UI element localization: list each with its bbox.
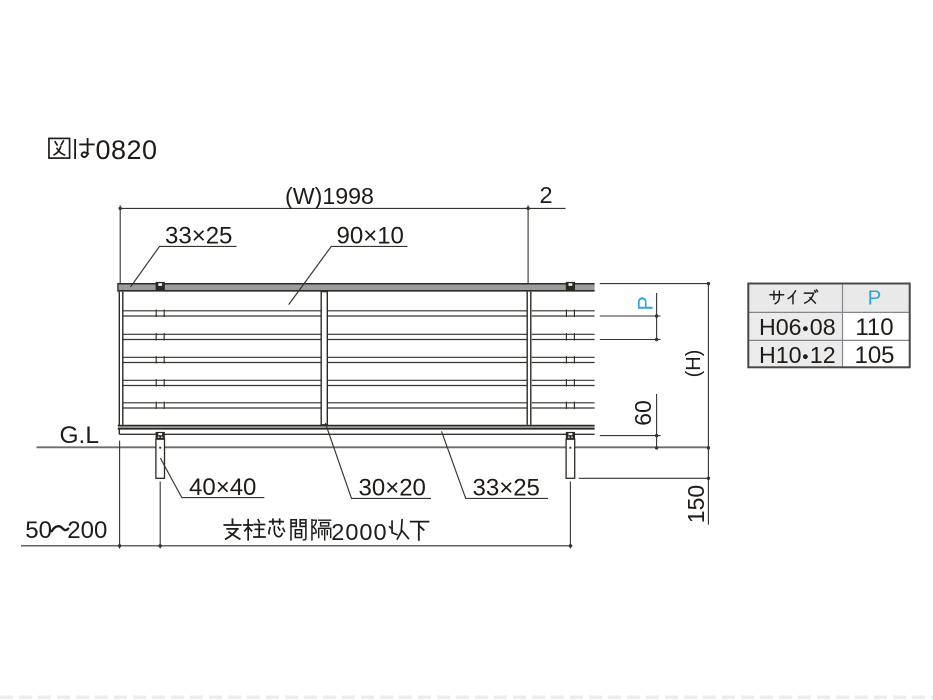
dot — [159, 544, 162, 547]
rail bracket ticks — [565, 379, 567, 386]
center stile 30x20 — [321, 292, 327, 425]
rail bracket ticks — [155, 310, 157, 317]
P dimension extension lines — [600, 315, 661, 317]
screw dots — [158, 436, 160, 438]
post 2 center line — [569, 482, 571, 549]
svg-text:200: 200 — [67, 517, 107, 544]
svg-text:150: 150 — [683, 485, 709, 523]
faint cropped row at bottom — [0, 696, 933, 700]
post 2 40x40 below ground — [566, 439, 575, 478]
label 支柱芯間隔2000以下 — [224, 519, 240, 539]
right frame line panel2 — [530, 292, 532, 425]
post cap top — [156, 282, 165, 290]
post cap bottom — [566, 432, 575, 439]
bottom rail top edge — [118, 425, 595, 427]
svg-text:(W)1998: (W)1998 — [285, 183, 374, 209]
left frame outer line — [118, 292, 120, 435]
rail 5 continuation — [532, 402, 595, 404]
extension line right top — [527, 205, 529, 283]
rail 5 (90x10) — [124, 402, 527, 404]
screw dots — [568, 436, 570, 438]
extension line top rail to H dim — [600, 283, 710, 285]
top rail bottom edge — [118, 290, 595, 292]
dot — [118, 544, 121, 547]
rail 1 (90x10) — [124, 310, 527, 312]
svg-text:(H): (H) — [683, 350, 705, 378]
left frame inner line — [122, 292, 124, 425]
title 図は0820 — [49, 138, 70, 158]
table row line 2 — [748, 339, 909, 341]
post cap notch — [158, 283, 162, 286]
table cell bg H06-08 — [748, 312, 842, 340]
rail 4 continuation — [532, 379, 595, 381]
150 dimension — [579, 477, 709, 479]
table outer border — [748, 284, 909, 368]
leader 33x25 bottom — [442, 431, 548, 498]
table cell bg H10-12 — [748, 340, 842, 367]
extension line left top — [119, 205, 121, 283]
table header サイズ — [770, 291, 783, 303]
dim dot left — [119, 207, 122, 210]
svg-text:110: 110 — [855, 314, 893, 341]
dot — [569, 544, 572, 547]
rail bracket ticks — [155, 356, 157, 363]
svg-text:40×40: 40×40 — [189, 474, 256, 501]
svg-text:G.L: G.L — [60, 422, 100, 449]
wave dash — [52, 526, 69, 531]
leader 33x25 top — [131, 246, 237, 287]
svg-text:12: 12 — [810, 342, 836, 368]
svg-text:60: 60 — [630, 400, 656, 426]
svg-text:H10: H10 — [759, 342, 802, 368]
bottom dimension line — [21, 545, 572, 547]
rail 2 continuation — [532, 333, 595, 335]
top rail bar fill — [118, 284, 595, 290]
rail 3 (90x10) — [124, 356, 527, 358]
dim dot right — [526, 207, 529, 210]
svg-text:H06: H06 — [759, 314, 802, 340]
rail 3 continuation — [532, 356, 595, 358]
rail bracket ticks — [155, 379, 157, 386]
post 2 center dot — [569, 447, 571, 449]
leader 40x40 — [160, 458, 264, 497]
svg-text:105: 105 — [854, 342, 894, 369]
rail 2 (90x10) — [124, 333, 527, 335]
post 1 40x40 below ground — [156, 439, 165, 478]
rail 4 (90x10) — [124, 379, 527, 381]
svg-text:0820: 0820 — [96, 135, 158, 165]
rail bracket ticks — [565, 310, 567, 317]
post cap bottom — [156, 432, 165, 439]
rail bracket ticks — [155, 333, 157, 340]
(H) dimension — [707, 284, 709, 448]
panel bottom line 33x25 — [119, 433, 594, 435]
rail bracket ticks — [565, 333, 567, 340]
P dimension line — [656, 293, 658, 340]
rail bracket ticks — [565, 402, 567, 409]
ground line G.L — [37, 446, 710, 448]
table column line — [842, 284, 844, 368]
table row line 1 — [748, 311, 909, 313]
svg-text:2000: 2000 — [331, 519, 387, 545]
svg-text:P: P — [868, 287, 882, 310]
leader 30x20 — [325, 423, 431, 498]
svg-text:90×10: 90×10 — [337, 222, 404, 249]
rail bracket ticks — [565, 356, 567, 363]
svg-text:30×20: 30×20 — [359, 475, 426, 502]
post cap top — [566, 282, 575, 290]
svg-text:33×25: 33×25 — [165, 222, 232, 249]
60 dimension — [600, 435, 661, 437]
top dimension line — [120, 207, 565, 209]
post 1 center dot — [159, 447, 161, 449]
table header bg — [748, 284, 909, 313]
bottom rail bar fill — [118, 426, 595, 429]
svg-text:33×25: 33×25 — [473, 475, 540, 502]
top rail left cap — [117, 283, 119, 292]
bottom rail bottom edge — [118, 428, 595, 430]
svg-text:2: 2 — [540, 182, 553, 208]
svg-text:08: 08 — [810, 314, 836, 340]
extension line panel left bottom — [119, 441, 121, 549]
right frame line panel1 — [526, 292, 528, 425]
svg-text:50: 50 — [25, 517, 52, 544]
post cap notch — [569, 283, 573, 286]
svg-text:P: P — [634, 296, 658, 310]
post 1 center line — [159, 482, 161, 549]
post cap bottom notch — [569, 433, 573, 435]
post cap bottom notch — [158, 433, 162, 435]
leader 90x10 — [289, 246, 408, 304]
top rail top edge — [118, 283, 595, 285]
rail bracket ticks — [155, 402, 157, 409]
rail 1 continuation — [532, 310, 595, 312]
